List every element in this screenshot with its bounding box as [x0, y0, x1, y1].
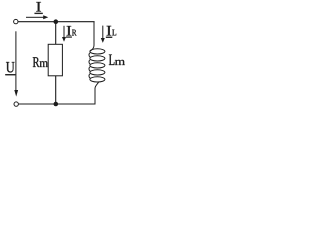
current arrow I (rightward, above top wire): [26, 15, 48, 19]
label I (phasor current I): [35, 2, 43, 14]
label U (phasor voltage U): [5, 62, 15, 75]
terminal top-left: [14, 19, 18, 23]
wire resistor Rm top lead: [55, 22, 57, 45]
wire resistor Rm bottom lead: [55, 76, 57, 104]
current arrow IL (downward): [101, 26, 105, 43]
label IR (phasor): [66, 26, 77, 38]
label Lm: [109, 55, 125, 66]
node junction bottom: [54, 102, 59, 107]
terminal bottom-left: [14, 102, 18, 106]
current arrow IR (downward): [62, 26, 66, 42]
inductor Lm coil: [89, 22, 105, 104]
node junction top: [54, 19, 59, 24]
label IL (phasor): [106, 26, 116, 38]
wire bottom horizontal: [19, 103, 96, 105]
wire top horizontal: [18, 21, 94, 23]
label Rm: [33, 57, 48, 67]
wire left vertical: [15, 31, 17, 90]
current arrow on left wire (downward): [14, 90, 18, 97]
resistor Rm box: [48, 44, 62, 76]
